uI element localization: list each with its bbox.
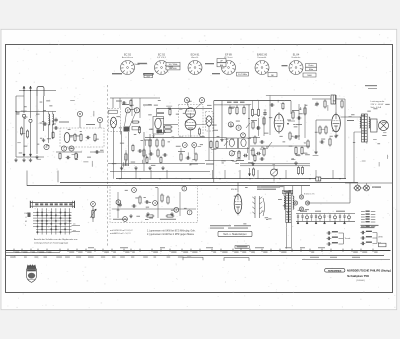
- svg-text:M: M: [25, 221, 27, 223]
- svg-text:6,3 V/0,3: 6,3 V/0,3: [157, 57, 167, 59]
- svg-text:10,7 MHz: 10,7 MHz: [169, 64, 178, 66]
- svg-text:EC 92: EC 92: [124, 54, 132, 57]
- svg-text:Leitungsverlauf am Tastenaggre: Leitungsverlauf am Tastenaggregat: [34, 241, 69, 244]
- svg-text:10,7 MHz: 10,7 MHz: [238, 74, 247, 76]
- svg-text:S: S: [238, 126, 240, 130]
- svg-text:Ansicht der Schalter von der S: Ansicht der Schalter von der Skalenseite…: [34, 238, 78, 241]
- svg-text:H: H: [201, 98, 203, 102]
- svg-text:Leistungsaufn.: Leistungsaufn.: [371, 100, 386, 103]
- svg-text:1.) gemessen mit UKW bei 87,5: 1.) gemessen mit UKW bei 87,5 MHz geg. G…: [147, 229, 196, 232]
- svg-text:( 109-60 ): ( 109-60 ): [356, 280, 365, 282]
- svg-text:Tonab.: Tonab.: [345, 238, 352, 240]
- svg-text:AM 460: AM 460: [169, 67, 177, 70]
- svg-text:Anschl.: Anschl.: [191, 56, 199, 59]
- svg-text:Schaltplan 758: Schaltplan 758: [347, 274, 369, 278]
- svg-text:Netz- u. Skalenlampen: Netz- u. Skalenlampen: [223, 233, 247, 236]
- svg-text:NORDMENDE: NORDMENDE: [328, 270, 342, 272]
- svg-text:C: C: [63, 147, 65, 151]
- svg-text:mit AM 10 mV - 5,2 V: mit AM 10 mV - 5,2 V: [110, 232, 131, 235]
- svg-text:FM: FM: [25, 213, 28, 215]
- svg-text:P: P: [92, 202, 94, 206]
- svg-text:NORDDEUTSCHE PHILIPS (Stuttg.): NORDDEUTSCHE PHILIPS (Stuttg.): [347, 269, 391, 273]
- svg-text:Ratio: Ratio: [309, 64, 315, 67]
- svg-text:EF 89: EF 89: [225, 54, 232, 57]
- svg-text:ECH 81: ECH 81: [191, 54, 200, 57]
- svg-text:K: K: [193, 143, 195, 147]
- svg-text:D: D: [99, 118, 101, 122]
- svg-text:ein: ein: [73, 223, 76, 225]
- svg-text:EL 84: EL 84: [293, 54, 300, 57]
- svg-text:2.) gemessen mit AM bei 1 MHz: 2.) gemessen mit AM bei 1 MHz gegen Mass…: [147, 233, 195, 236]
- svg-text:Endstufe: Endstufe: [292, 56, 301, 59]
- svg-text:EABC 80: EABC 80: [257, 54, 268, 57]
- svg-text:EC 92: EC 92: [158, 54, 166, 57]
- svg-text:EM 84: EM 84: [231, 189, 238, 191]
- svg-text:U: U: [231, 151, 233, 155]
- svg-text:E: E: [127, 108, 129, 112]
- svg-text:F: F: [136, 108, 138, 112]
- svg-text:220 V~ 48 W: 220 V~ 48 W: [371, 104, 385, 106]
- svg-text:AM: AM: [220, 64, 223, 67]
- svg-text:mit UKW 20 mV - 6,5 V: mit UKW 20 mV - 6,5 V: [110, 229, 133, 232]
- svg-text:Demodul.: Demodul.: [257, 57, 267, 59]
- svg-text:B: B: [79, 112, 81, 116]
- svg-text:aus: aus: [73, 230, 76, 232]
- svg-text:UKW: UKW: [378, 237, 383, 239]
- svg-text:T: T: [242, 133, 244, 137]
- svg-text:Anschlüsse: Anschlüsse: [122, 56, 134, 59]
- svg-text:B 250 C 75: B 250 C 75: [304, 194, 315, 196]
